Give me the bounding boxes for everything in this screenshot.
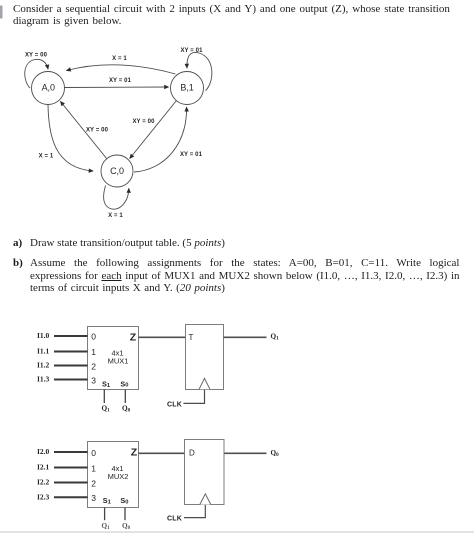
svg-text:0: 0	[91, 331, 96, 341]
svg-text:I2.3: I2.3	[37, 492, 50, 501]
mux1 select S1 label	[102, 380, 111, 389]
clock edge triangle (circuit 2)	[200, 494, 211, 505]
wire Z to D flip-flop	[139, 452, 185, 454]
scan artifact left edge	[0, 6, 3, 19]
svg-text:I2.2: I2.2	[37, 478, 50, 487]
wire select S0 stub to Q0	[124, 390, 126, 404]
wire FF2 output to Q0	[224, 452, 266, 454]
self-loop C, X=1	[104, 186, 129, 219]
flip-flop U2 (T) box	[186, 325, 224, 390]
svg-text:I2.1: I2.1	[37, 463, 50, 472]
mux2 pin 2	[91, 478, 96, 488]
svg-text:CLK: CLK	[167, 402, 182, 409]
svg-text:XY = 00: XY = 00	[86, 128, 109, 134]
svg-text:Q0: Q0	[122, 404, 131, 413]
mux1 output Z label	[130, 332, 137, 344]
item b marker	[13, 257, 23, 269]
input label I2.2	[37, 478, 50, 487]
svg-text:XY = 00: XY = 00	[132, 119, 155, 125]
self-loop A, XY=00	[25, 53, 48, 89]
svg-text:I1.0: I1.0	[37, 331, 50, 340]
svg-text:Q0: Q0	[271, 449, 280, 458]
svg-text:D: D	[189, 449, 195, 458]
wire select S1 stub to Q1	[103, 390, 105, 404]
mux1 pin 3	[91, 376, 96, 386]
svg-text:I1.1: I1.1	[37, 347, 50, 356]
svg-text:2: 2	[91, 362, 96, 372]
select source label Q1	[102, 404, 111, 413]
svg-text:3: 3	[91, 376, 96, 386]
scan artifact bottom edge	[0, 532, 474, 533]
svg-text:B,1: B,1	[180, 83, 193, 93]
mux1 pin 0	[91, 331, 96, 341]
svg-text:XY = 00: XY = 00	[25, 53, 48, 59]
wire select S0 stub to Q0 (circuit 2)	[124, 508, 126, 521]
output label Q1	[271, 333, 280, 342]
wire I1.3 to mux	[54, 379, 88, 381]
label CLK (circuit 2)	[167, 516, 182, 523]
item a text	[30, 237, 460, 249]
svg-text:Q0: Q0	[122, 522, 131, 531]
svg-text:A,0: A,0	[42, 83, 55, 93]
state A,0	[32, 72, 65, 105]
transition B->A, X=1	[67, 56, 176, 74]
item a marker	[13, 237, 22, 249]
flip-flop U4 (D) box	[185, 440, 225, 505]
wire I1.2 to mux	[54, 365, 88, 367]
label CLK (circuit 1)	[167, 402, 182, 409]
input label I2.3	[37, 492, 50, 501]
svg-text:T: T	[189, 333, 194, 342]
item b text	[30, 257, 460, 295]
select source label Q0 (circuit 2)	[122, 522, 131, 531]
mux1 select S0 label	[120, 379, 128, 388]
svg-text:2: 2	[91, 478, 96, 488]
svg-text:X = 1: X = 1	[108, 213, 123, 219]
svg-text:CLK: CLK	[167, 516, 182, 523]
svg-text:XY = 01: XY = 01	[180, 152, 203, 158]
output label Q0	[271, 449, 280, 458]
svg-text:Z: Z	[130, 332, 137, 344]
svg-text:Q1: Q1	[102, 404, 111, 413]
mux2 select S1 label	[103, 496, 112, 505]
svg-text:I1.2: I1.2	[37, 361, 50, 370]
mux2 select S0 label	[120, 496, 128, 505]
wire CLK to FF2	[184, 505, 205, 518]
wire CLK to FF1	[183, 390, 204, 404]
mux U1 4x1 MUX1 box	[88, 327, 139, 390]
svg-text:I2.0: I2.0	[37, 447, 50, 456]
wire I2.3 to mux	[54, 496, 88, 498]
input label I1.2	[37, 361, 50, 370]
svg-text:MUX1: MUX1	[108, 357, 129, 366]
paragraph: problem statement	[13, 3, 458, 27]
select source label Q0	[122, 404, 131, 413]
state C,0	[101, 155, 133, 187]
input label I2.0	[37, 447, 50, 456]
input label I1.0	[37, 331, 50, 340]
wire Z to T flip-flop	[139, 336, 186, 338]
svg-text:Z: Z	[131, 446, 138, 458]
svg-text:X = 1: X = 1	[39, 154, 54, 160]
transition C->B, XY=01	[134, 107, 203, 172]
wire I2.0 to mux	[54, 451, 88, 453]
input label I1.1	[37, 347, 50, 356]
input label I1.3	[37, 375, 50, 384]
self-loop B, XY=01	[180, 48, 211, 91]
svg-text:X = 1: X = 1	[112, 56, 127, 62]
mux1 pin 2	[91, 362, 96, 372]
svg-text:MUX2: MUX2	[108, 472, 129, 481]
svg-text:0: 0	[91, 448, 96, 458]
wire FF1 output to Q1	[224, 336, 267, 338]
clock edge triangle	[199, 378, 210, 389]
state B,1	[171, 72, 204, 105]
transition C->A, XY=00	[61, 102, 109, 160]
wire I1.1 to mux	[54, 351, 88, 353]
wire I2.1 to mux	[54, 467, 88, 469]
wire I2.2 to mux	[54, 482, 88, 484]
svg-text:1: 1	[91, 463, 96, 473]
svg-text:1: 1	[91, 347, 96, 357]
svg-text:I1.3: I1.3	[37, 375, 50, 384]
transition A->C, X=1	[39, 105, 93, 172]
wire I1.0 to mux	[54, 335, 88, 337]
mux U3 4x1 MUX2 box	[88, 442, 139, 508]
svg-text:Q1: Q1	[271, 333, 280, 342]
svg-text:Q1: Q1	[102, 522, 111, 531]
svg-text:XY = 01: XY = 01	[109, 78, 132, 84]
svg-text:3: 3	[91, 493, 96, 503]
mux2 pin 0	[91, 448, 96, 458]
transition B->C, XY=00	[130, 101, 177, 159]
transition A->B, XY=01	[65, 78, 169, 88]
select source label Q1 (circuit 2)	[102, 522, 111, 531]
input label I2.1	[37, 463, 50, 472]
wire select S1 stub to Q1 (circuit 2)	[104, 508, 106, 521]
mux2 pin 3	[91, 493, 96, 503]
mux1 pin 1	[91, 347, 96, 357]
mux2 output Z label	[131, 446, 138, 458]
svg-text:XY = 01: XY = 01	[180, 48, 203, 54]
mux2 pin 1	[91, 463, 96, 473]
svg-text:C,0: C,0	[110, 166, 124, 176]
